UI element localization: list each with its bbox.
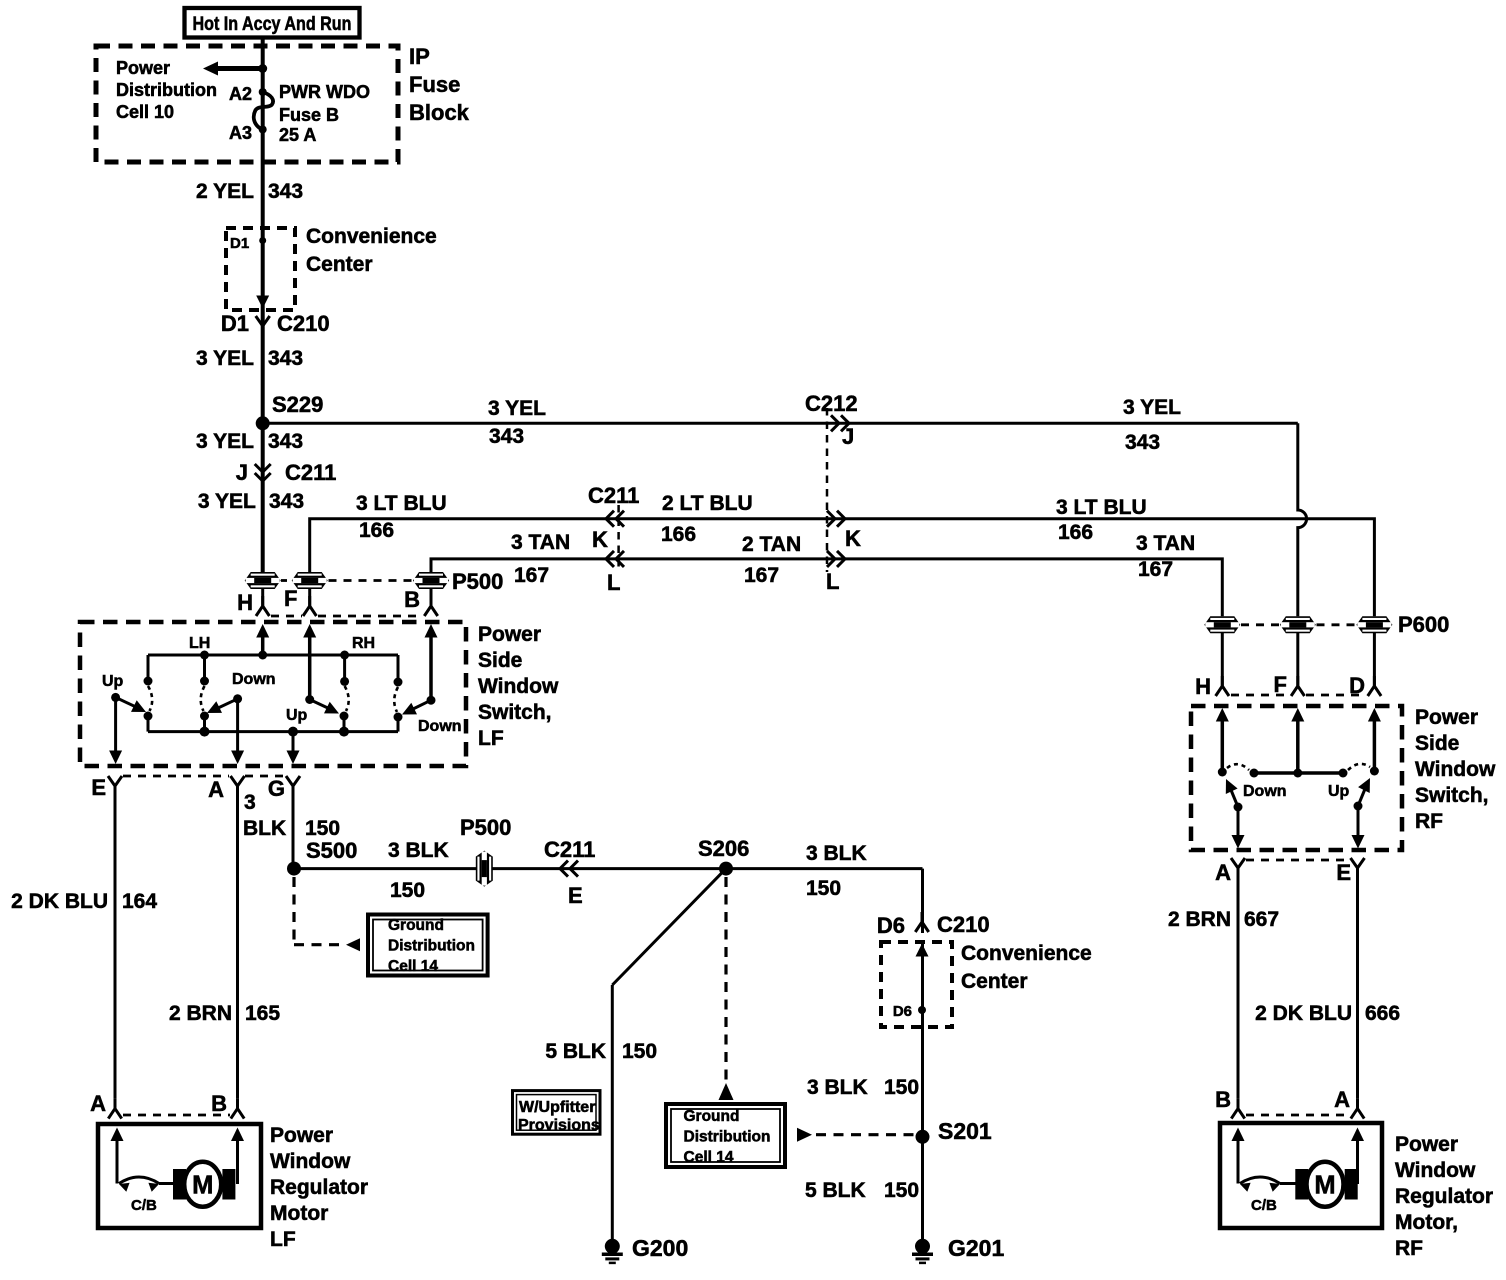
svg-text:Up: Up	[1328, 783, 1350, 800]
svg-text:167: 167	[1138, 558, 1173, 581]
svg-text:Motor: Motor	[270, 1202, 328, 1225]
wire: ground bus 3 BLK 150	[294, 867, 923, 870]
switch RF: common bar	[1254, 771, 1343, 775]
Power Window Regulator Motor RF box	[1220, 1123, 1382, 1228]
svg-text:Cell 10: Cell 10	[116, 102, 174, 122]
dashed link between grommets H-F	[281, 579, 291, 582]
motor LF: circuit breaker C/B	[119, 1177, 159, 1184]
svg-text:Center: Center	[961, 970, 1028, 993]
svg-text:166: 166	[1058, 521, 1093, 544]
svg-text:D1: D1	[230, 235, 249, 252]
grommet P500 pass-through H	[245, 572, 281, 589]
Ground Distribution Cell 14 box (left)	[368, 915, 488, 976]
svg-text:Regulator: Regulator	[270, 1176, 368, 1199]
connector fork E	[108, 776, 122, 797]
svg-text:A: A	[1215, 860, 1231, 885]
svg-text:Cell 14: Cell 14	[684, 1149, 734, 1166]
dashed link grommets H-F (P600)	[1241, 623, 1279, 626]
connector fork A	[231, 776, 245, 797]
svg-text:C212: C212	[805, 391, 858, 416]
svg-text:3 YEL: 3 YEL	[196, 430, 254, 453]
switch LF: lever Up-RH	[310, 700, 330, 710]
svg-text:A3: A3	[229, 123, 252, 143]
arrowhead (up) at Ground Distribution ref	[719, 1083, 734, 1100]
wire: G to S500	[292, 797, 295, 869]
connector half H RF (fork)	[1216, 676, 1229, 696]
switch RF: open-throw arc left	[1227, 764, 1249, 770]
svg-text:5 BLK: 5 BLK	[545, 1040, 606, 1063]
svg-text:Fuse B: Fuse B	[279, 105, 339, 125]
svg-text:C210: C210	[937, 912, 990, 937]
svg-text:F: F	[1274, 672, 1287, 697]
wire: 3 YEL vertical right with hop over LT BLU	[1298, 423, 1307, 616]
wire: feed to Power Distribution	[216, 66, 263, 71]
switch LF: lower contact 1	[144, 712, 153, 721]
motor RF: arrow pin B	[1232, 1128, 1245, 1142]
wire: LT BLU 166 run	[310, 519, 1375, 617]
svg-text:Down: Down	[418, 718, 462, 735]
svg-text:C/B: C/B	[1251, 1197, 1277, 1214]
svg-text:E: E	[1336, 860, 1351, 885]
svg-text:3 TAN: 3 TAN	[1136, 532, 1195, 555]
connector C210 (D1)	[256, 316, 270, 337]
svg-text:S229: S229	[272, 392, 323, 417]
svg-text:343: 343	[268, 180, 303, 203]
motor LF: arrow pin B	[231, 1128, 244, 1142]
svg-text:343: 343	[489, 425, 524, 448]
switch LF: arrow to F	[303, 624, 316, 638]
connector half B (fork)	[424, 596, 437, 616]
svg-text:A: A	[90, 1091, 106, 1116]
arrowhead into C210	[256, 296, 269, 309]
wire stub F (RF)	[1296, 633, 1299, 686]
svg-text:Hot In Accy And Run: Hot In Accy And Run	[193, 14, 352, 35]
dashed reference: Ground Distribution to S201	[816, 1133, 915, 1136]
svg-text:165: 165	[245, 1002, 280, 1025]
wire: TAN 167 run	[431, 559, 1222, 616]
switch LF: lever Down-LH	[233, 694, 242, 703]
wire stub F to switch	[308, 589, 311, 606]
svg-text:D6: D6	[877, 913, 905, 938]
wire: 2 DK BLU 666 (E to motor A)	[1356, 879, 1359, 1099]
dashed connector face (A-G)	[245, 775, 285, 778]
svg-text:D6: D6	[893, 1003, 912, 1020]
switch LF: lower bus dot at 2	[200, 727, 210, 737]
wire: 2 DK BLU 164 (E to motor A)	[114, 797, 117, 1099]
arrowhead to Power Distribution	[203, 62, 218, 76]
svg-text:Up: Up	[286, 707, 308, 724]
arrowhead (left) at Cell 14 box	[346, 938, 360, 951]
connector half D RF (fork)	[1368, 676, 1381, 696]
svg-text:166: 166	[359, 519, 394, 542]
svg-text:Cell 14: Cell 14	[388, 958, 438, 975]
switch RF: bar dot center	[1293, 769, 1302, 778]
W/Upfitter Provisions box	[513, 1091, 601, 1135]
svg-text:3 YEL: 3 YEL	[196, 347, 254, 370]
svg-text:150: 150	[806, 877, 841, 900]
grommet P600 pass-through F	[1280, 616, 1316, 633]
motor RF: M rotor	[1307, 1162, 1344, 1207]
arrowhead (right) from Ground Distribution box	[797, 1128, 812, 1142]
dashed link between grommets F-B	[329, 579, 413, 582]
svg-text:J: J	[842, 424, 854, 449]
svg-text:BLK: BLK	[243, 817, 286, 840]
svg-text:RH: RH	[352, 635, 375, 652]
svg-text:Down: Down	[232, 671, 276, 688]
dashed reference: corner to Cell 14 box	[294, 943, 340, 946]
ground G201	[915, 1239, 930, 1254]
motor LF: M rotor	[184, 1162, 221, 1207]
wire stub H to switch	[261, 589, 264, 606]
connector half A (LF motor)	[108, 1099, 121, 1119]
switch RF: contact dot H	[1218, 768, 1227, 777]
switch LF: lever Up-LH	[111, 693, 120, 702]
motor RF: brush right	[1345, 1169, 1358, 1200]
switch RF: lever right	[1354, 802, 1363, 811]
motor RF: brush left	[1295, 1169, 1308, 1200]
wire: S206 diagonal to G200 drop	[612, 869, 726, 985]
svg-text:343: 343	[1125, 431, 1160, 454]
svg-text:C/B: C/B	[131, 1197, 157, 1214]
svg-text:3 BLK: 3 BLK	[807, 1076, 868, 1099]
svg-text:LF: LF	[270, 1228, 296, 1251]
wire stub B to switch	[430, 589, 433, 606]
wire: main vertical 2/3 YEL 343	[261, 37, 265, 573]
switch LF: bus dot RH	[340, 651, 349, 660]
svg-text:150: 150	[390, 879, 425, 902]
svg-text:P600: P600	[1398, 612, 1449, 637]
switch LF: open-throw arc 4	[394, 687, 398, 712]
switch LF: lower contact 4	[394, 713, 403, 722]
connector C211 (K,L) dashed line	[617, 505, 620, 572]
svg-text:Power: Power	[116, 58, 170, 78]
wire: 2 BRN 667 (A to motor B)	[1237, 879, 1240, 1099]
dashed connector face (A-E RF)	[1246, 859, 1349, 862]
svg-text:Window: Window	[1395, 1159, 1476, 1182]
svg-text:150: 150	[622, 1040, 657, 1063]
switch RF: open-throw arc right	[1348, 764, 1370, 770]
svg-text:C211: C211	[588, 483, 639, 508]
svg-text:S500: S500	[306, 838, 357, 863]
svg-text:P500: P500	[460, 815, 511, 840]
svg-text:G201: G201	[948, 1235, 1004, 1261]
svg-text:Motor,: Motor,	[1395, 1211, 1458, 1234]
svg-text:A2: A2	[229, 84, 252, 104]
svg-text:C210: C210	[277, 311, 330, 336]
svg-text:2 BRN: 2 BRN	[1168, 908, 1231, 931]
grommet P500 pass-through B	[413, 572, 449, 589]
svg-text:LF: LF	[478, 727, 504, 750]
switch RF: bar dot right	[1339, 769, 1348, 778]
svg-text:K: K	[845, 526, 861, 551]
svg-text:W/Upfitter: W/Upfitter	[519, 1099, 595, 1116]
grommet P500 on ground bus	[476, 851, 493, 887]
dashed reference: S500 down	[292, 877, 295, 941]
svg-text:H: H	[237, 590, 253, 615]
svg-text:Up: Up	[102, 673, 124, 690]
svg-text:Window: Window	[1415, 758, 1496, 781]
connector half A (RF motor)	[1351, 1099, 1364, 1119]
grommet P500 pass-through F	[292, 572, 328, 589]
connector half F (fork)	[303, 596, 316, 616]
switch LF: wire bus to G	[292, 732, 295, 753]
svg-text:J: J	[236, 460, 248, 485]
dashed connector face (H-F RF)	[1231, 694, 1290, 697]
dashed connector face (F-D RF)	[1306, 694, 1366, 697]
svg-text:D1: D1	[221, 311, 249, 336]
wire: 3 BLK 150 down to G201	[921, 869, 924, 933]
switch RF: lever left	[1234, 803, 1243, 812]
svg-text:IP: IP	[409, 44, 430, 69]
svg-text:K: K	[592, 527, 608, 552]
switch LF: open-throw arc 3	[345, 686, 349, 711]
svg-text:M: M	[192, 1172, 213, 1200]
dashed link grommets F-D (P600)	[1317, 623, 1356, 626]
svg-text:3 LT BLU: 3 LT BLU	[1056, 496, 1147, 519]
switch RF: arrow to H	[1216, 708, 1229, 722]
switch LF: open-throw arc 1	[148, 686, 152, 711]
svg-text:Distribution: Distribution	[388, 938, 475, 955]
wire stub H (RF)	[1221, 633, 1224, 686]
switch RF: arrow to D	[1368, 708, 1381, 722]
svg-text:25 A: 25 A	[279, 125, 316, 145]
svg-text:Convenience: Convenience	[961, 942, 1092, 965]
switch LF: bus dot LH	[200, 651, 209, 660]
switch LF: lever Down-RH	[427, 696, 436, 705]
ground G200	[605, 1239, 620, 1254]
svg-text:Switch,: Switch,	[1415, 784, 1489, 807]
svg-text:5 BLK: 5 BLK	[805, 1179, 866, 1202]
svg-text:164: 164	[122, 890, 157, 913]
switch LF: wire pivot1 to E	[114, 697, 117, 753]
motor LF: brush left	[173, 1169, 186, 1200]
connector half F RF (fork)	[1291, 676, 1304, 696]
svg-text:150: 150	[305, 817, 340, 840]
connector fork A (RF)	[1231, 858, 1245, 879]
switch LF: top bus	[148, 654, 398, 657]
wire: 2 BRN 165 (A to motor B)	[236, 797, 239, 1099]
svg-text:C211: C211	[285, 460, 336, 485]
svg-text:Convenience: Convenience	[306, 225, 437, 248]
svg-text:E: E	[91, 775, 106, 800]
svg-text:C211: C211	[544, 837, 595, 862]
svg-text:Center: Center	[306, 253, 373, 276]
connector C212 pin K	[827, 511, 845, 527]
svg-text:S206: S206	[698, 836, 749, 861]
svg-text:Window: Window	[270, 1150, 351, 1173]
splice S201	[916, 1130, 930, 1144]
svg-text:S201: S201	[938, 1118, 992, 1144]
svg-text:L: L	[607, 570, 620, 595]
Power Side Window Switch RF dashed box	[1191, 706, 1402, 850]
switch LF: lower contact 3	[340, 712, 349, 721]
dashed connector face (E-A)	[123, 775, 229, 778]
svg-text:Ground: Ground	[388, 917, 444, 934]
svg-text:167: 167	[514, 564, 549, 587]
dashed connector face (B-A RF motor)	[1246, 1114, 1349, 1117]
svg-text:343: 343	[268, 430, 303, 453]
switch LF: stub contact 2	[203, 655, 206, 678]
svg-text:Distribution: Distribution	[116, 80, 217, 100]
power feed box: Hot In Accy And Run	[185, 8, 360, 38]
svg-text:3 BLK: 3 BLK	[388, 839, 449, 862]
svg-text:B: B	[404, 587, 420, 612]
motor LF: brush right	[222, 1169, 235, 1200]
svg-text:3: 3	[244, 791, 256, 814]
Power Side Window Switch LF dashed box	[80, 622, 466, 766]
svg-text:Fuse: Fuse	[409, 72, 460, 97]
svg-text:343: 343	[269, 490, 304, 513]
svg-text:2 BRN: 2 BRN	[169, 1002, 232, 1025]
connector fork G	[286, 776, 300, 797]
svg-text:P500: P500	[452, 569, 503, 594]
switch RF: arrow to F	[1291, 708, 1304, 722]
connector half B (LF motor)	[231, 1099, 244, 1119]
switch LF: arrow to B	[425, 624, 438, 638]
svg-text:2 TAN: 2 TAN	[742, 533, 801, 556]
dashed reference: S206 to Ground Distribution	[724, 877, 727, 1081]
connector fork E (RF)	[1351, 858, 1365, 879]
svg-text:Window: Window	[478, 675, 559, 698]
wire: 3 YEL 343 horizontal to C212	[263, 422, 1298, 425]
Convenience Center dashed box (D6)	[881, 942, 952, 1027]
svg-text:B: B	[1215, 1087, 1231, 1112]
svg-text:RF: RF	[1415, 810, 1443, 833]
switch LF: lower bus dot at 3	[339, 727, 349, 737]
switch LF: wire pivot2 to A	[236, 699, 239, 753]
wire stub D (RF)	[1373, 633, 1376, 686]
svg-text:343: 343	[268, 347, 303, 370]
switch LF: lower bus dot at G	[288, 727, 298, 737]
dashed connector face line (H-F-B)	[271, 615, 302, 618]
switch RF: wire lever-right to E	[1357, 806, 1360, 838]
svg-text:150: 150	[884, 1179, 919, 1202]
switch LF: open-throw arc 2	[201, 686, 205, 711]
fuse PWR WDO Fuse B 25A symbol	[259, 88, 267, 96]
svg-text:3 LT BLU: 3 LT BLU	[356, 492, 447, 515]
connector C211 pin L	[606, 551, 624, 567]
svg-text:Side: Side	[478, 649, 522, 672]
svg-text:E: E	[568, 883, 583, 908]
switch LF: pivot dot F	[305, 695, 314, 704]
dashed connector face (A-B LF motor)	[123, 1114, 230, 1117]
svg-text:M: M	[1314, 1172, 1335, 1200]
svg-text:2 LT BLU: 2 LT BLU	[662, 492, 753, 515]
Power Window Regulator Motor LF box	[98, 1124, 261, 1228]
svg-text:G: G	[268, 776, 285, 801]
svg-text:Ground: Ground	[684, 1108, 740, 1125]
svg-text:LH: LH	[189, 635, 210, 652]
Ground Distribution Cell 14 box (center)	[666, 1104, 785, 1167]
svg-text:F: F	[284, 586, 297, 611]
switch RF: bar dot left	[1250, 769, 1259, 778]
motor LF: arrow pin A	[111, 1128, 124, 1142]
connector half B (RF motor)	[1231, 1099, 1244, 1119]
svg-text:2 DK BLU: 2 DK BLU	[1255, 1002, 1352, 1025]
svg-text:Power: Power	[1395, 1133, 1458, 1156]
svg-text:G200: G200	[632, 1235, 688, 1261]
svg-text:Power: Power	[1415, 706, 1478, 729]
svg-text:H: H	[1195, 674, 1211, 699]
connector C212 pin J	[831, 415, 849, 431]
Convenience Center dashed box (D1)	[226, 228, 295, 310]
svg-text:2 DK BLU: 2 DK BLU	[11, 890, 108, 913]
svg-text:3 YEL: 3 YEL	[488, 397, 546, 420]
switch LF: stub contact 3	[343, 655, 346, 678]
switch LF: stub contact 4	[397, 655, 400, 679]
svg-text:3 BLK: 3 BLK	[806, 842, 867, 865]
svg-text:2 YEL: 2 YEL	[196, 180, 254, 203]
svg-text:167: 167	[744, 564, 779, 587]
switch RF: contact dot D	[1370, 767, 1379, 776]
switch LF: lower bus	[148, 730, 398, 733]
svg-text:Power: Power	[270, 1124, 333, 1147]
switch LF: lower contact 2	[200, 712, 209, 721]
svg-text:3 TAN: 3 TAN	[511, 531, 570, 554]
svg-text:RF: RF	[1395, 1237, 1423, 1260]
svg-text:Block: Block	[409, 100, 470, 125]
svg-text:Provisions: Provisions	[518, 1117, 600, 1134]
svg-text:Switch,: Switch,	[478, 701, 552, 724]
connector C211 pin K	[606, 511, 624, 527]
svg-text:3 YEL: 3 YEL	[198, 490, 256, 513]
switch LF: arrow to H	[256, 624, 269, 638]
svg-text:A: A	[1334, 1087, 1350, 1112]
IP Fuse Block dashed box	[96, 46, 398, 162]
grommet P600 pass-through D	[1356, 616, 1392, 633]
grommet P600 pass-through H	[1204, 616, 1240, 633]
motor RF: circuit breaker C/B	[1240, 1177, 1280, 1184]
connector C212 pin L	[827, 551, 845, 567]
svg-text:150: 150	[884, 1076, 919, 1099]
svg-text:Distribution: Distribution	[684, 1129, 771, 1146]
svg-text:3 YEL: 3 YEL	[1123, 396, 1181, 419]
switch LF: bus dot H	[258, 651, 267, 660]
svg-text:166: 166	[661, 523, 696, 546]
svg-text:Down: Down	[1243, 783, 1287, 800]
switch LF: stub contact 1	[147, 655, 150, 678]
svg-text:Side: Side	[1415, 732, 1459, 755]
junction dot at feed tap	[258, 64, 267, 73]
svg-text:Regulator: Regulator	[1395, 1185, 1493, 1208]
svg-text:667: 667	[1244, 908, 1279, 931]
svg-text:PWR WDO: PWR WDO	[279, 82, 370, 102]
wire: vertical drop to G200	[611, 985, 614, 1240]
connector half H (fork)	[256, 596, 269, 616]
connector C210 (D6)	[915, 912, 928, 932]
svg-text:666: 666	[1365, 1002, 1400, 1025]
arrowhead into C210 (D6)	[916, 944, 929, 957]
svg-text:L: L	[826, 569, 839, 594]
svg-text:B: B	[211, 1091, 227, 1116]
svg-text:Power: Power	[478, 623, 541, 646]
motor RF: arrow pin A	[1351, 1128, 1364, 1142]
svg-text:A: A	[208, 777, 224, 802]
switch RF: wire lever-left to A	[1237, 807, 1240, 838]
